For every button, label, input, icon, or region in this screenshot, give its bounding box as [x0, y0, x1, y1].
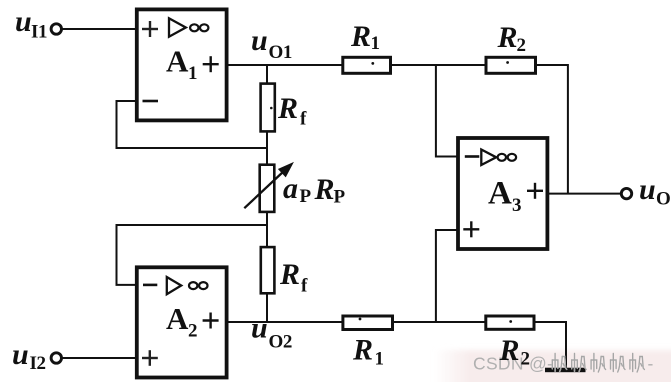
- wire A3 plus input from bottom junction: [436, 230, 457, 322]
- svg-text:A: A: [488, 176, 512, 212]
- wire u_I1 to A1: [61, 28, 136, 30]
- watermark fan glyphs: [552, 354, 644, 373]
- A1 minus input symbol: [143, 100, 159, 103]
- wire junction top to A3 minus input: [436, 65, 457, 157]
- wire A2 output: [227, 321, 343, 323]
- op-amp A3: [458, 138, 547, 249]
- svg-text:u: u: [251, 24, 268, 57]
- svg-text:u: u: [639, 173, 656, 206]
- svg-text:1: 1: [371, 33, 380, 54]
- svg-text:R: R: [499, 334, 520, 367]
- svg-text:R: R: [277, 92, 298, 125]
- svg-text:2: 2: [517, 35, 526, 56]
- svg-text:u: u: [251, 312, 268, 345]
- watermark CSDN text: [473, 354, 654, 374]
- resistor R1 bottom: [343, 316, 393, 370]
- A2 plus input symbol: [142, 350, 158, 366]
- A3 plus input symbol: [463, 221, 479, 237]
- svg-text:1: 1: [188, 63, 197, 84]
- terminal u_O: [621, 188, 631, 198]
- svg-text:I2: I2: [30, 353, 46, 374]
- wire Rf to Rp: [266, 132, 268, 165]
- wire A1 feedback: [117, 101, 268, 148]
- label u_I1: [15, 5, 47, 43]
- svg-text:P: P: [334, 187, 346, 208]
- svg-text:2: 2: [521, 349, 530, 370]
- svg-text:2: 2: [188, 321, 197, 342]
- svg-text:A: A: [166, 301, 189, 336]
- A2 minus input symbol: [143, 284, 157, 287]
- op-amp A1: [137, 9, 227, 120]
- svg-text:I1: I1: [31, 22, 47, 43]
- svg-text:R: R: [314, 173, 335, 206]
- svg-text:P: P: [300, 186, 312, 207]
- wire R1 top to R2 top: [391, 64, 486, 66]
- A2 triangle infinity symbol: [167, 277, 181, 294]
- label u_O: [639, 173, 670, 210]
- A3 triangle infinity symbol: [481, 150, 496, 166]
- svg-text:u: u: [12, 338, 29, 371]
- svg-text:R: R: [279, 258, 300, 291]
- ground: [545, 368, 586, 373]
- wire node uO1 down to Rf: [266, 65, 268, 84]
- wire u_I2 to A2: [61, 357, 136, 359]
- A3 output plus symbol: [527, 183, 543, 199]
- terminal u_I2: [51, 353, 61, 363]
- potentiometer Rp: [244, 163, 292, 212]
- A2 output plus symbol: [203, 313, 219, 329]
- wire R2 bottom to ground: [535, 322, 567, 368]
- node u_O2: [251, 312, 292, 353]
- resistor R2 top: [486, 21, 536, 73]
- svg-text:A: A: [166, 44, 189, 79]
- resistor R2 bottom: [486, 316, 534, 370]
- A1 triangle infinity symbol: [169, 18, 186, 36]
- wire A3 output: [547, 193, 622, 195]
- svg-text:R: R: [497, 21, 518, 54]
- svg-text:-: -: [648, 354, 654, 374]
- svg-text:a: a: [283, 172, 298, 205]
- wire A2 feedback: [117, 225, 268, 285]
- svg-text:R: R: [352, 334, 373, 367]
- wire R1 bottom to R2 bottom: [393, 321, 486, 323]
- svg-text:1: 1: [375, 349, 384, 370]
- resistor R1 top: [343, 20, 391, 74]
- resistor Rf top: [261, 84, 307, 132]
- resistor Rf bottom: [261, 247, 308, 296]
- node u_O1: [251, 24, 292, 63]
- wire Rf2 to uO2 node: [266, 294, 268, 323]
- svg-text:R: R: [350, 20, 371, 53]
- svg-text:u: u: [15, 5, 32, 38]
- A3 minus input symbol: [465, 155, 480, 158]
- wire A1 output: [227, 64, 343, 66]
- A1 plus input symbol: [142, 21, 158, 37]
- terminal u_I1: [51, 24, 61, 34]
- svg-text:O: O: [656, 189, 670, 210]
- wire Rp to Rf2: [266, 212, 268, 247]
- A1 output plus symbol: [203, 56, 219, 72]
- svg-text:O2: O2: [269, 332, 292, 353]
- label aP RP: [283, 172, 346, 208]
- svg-text:O1: O1: [269, 42, 292, 63]
- wire R2 top to feedback vertical: [536, 65, 568, 194]
- label u_I2: [12, 338, 46, 374]
- svg-text:3: 3: [512, 195, 521, 216]
- op-amp A2: [137, 267, 227, 377]
